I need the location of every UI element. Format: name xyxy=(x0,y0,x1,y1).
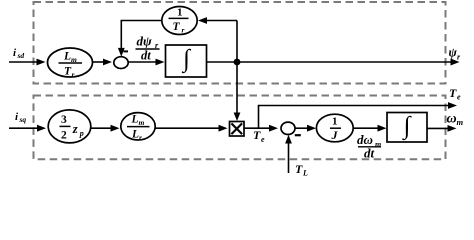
input label i_sd xyxy=(13,47,24,60)
gain block 1/J xyxy=(316,114,353,142)
wire: 1/Tr output down to S1 xyxy=(118,21,162,57)
gain block 3/2 zp xyxy=(48,110,91,143)
integrator block (speed) xyxy=(387,113,427,143)
summing junction S2 xyxy=(281,122,295,134)
output label Te xyxy=(449,86,461,102)
summing junction S1 xyxy=(114,57,128,69)
svg-text:L: L xyxy=(302,169,308,178)
svg-text:1: 1 xyxy=(332,116,338,128)
svg-text:L: L xyxy=(131,114,139,126)
svg-text:J: J xyxy=(331,128,339,142)
svg-text:dt: dt xyxy=(364,146,375,161)
wire: omega_m output xyxy=(427,125,457,132)
svg-text:e: e xyxy=(457,93,461,102)
wire: flux node down to multiplier xyxy=(234,62,241,121)
svg-text:m: m xyxy=(375,140,381,149)
svg-text:z: z xyxy=(72,122,78,136)
gain block Lm/Tr xyxy=(48,48,93,79)
output label psi_r xyxy=(449,46,462,62)
svg-text:2: 2 xyxy=(61,130,67,142)
svg-text:r: r xyxy=(182,25,185,34)
wire: i_sd input xyxy=(9,59,46,66)
svg-text:dt: dt xyxy=(141,49,151,63)
gain block Lm/Lr xyxy=(121,113,155,142)
input label i_sq xyxy=(15,111,26,124)
wire: 1/J to integrator 2 xyxy=(353,125,386,132)
svg-text:r: r xyxy=(139,133,142,142)
label TL xyxy=(295,162,308,178)
svg-text:m: m xyxy=(139,118,145,127)
svg-text:1: 1 xyxy=(177,7,183,19)
wire: 3/2zp to Lm/Lr xyxy=(91,125,120,132)
svg-text:sq: sq xyxy=(19,115,27,124)
svg-text:T: T xyxy=(295,162,303,176)
wire: multiplier to S2 xyxy=(244,125,278,132)
wire: S2 to 1/J xyxy=(295,125,316,132)
svg-text:L: L xyxy=(131,129,139,141)
svg-text:sd: sd xyxy=(17,51,25,60)
wire: Lm/Lr to multiplier xyxy=(155,125,227,132)
dashed box: rotor flux model (top) xyxy=(34,2,446,84)
label dpsi_r/dt xyxy=(136,34,160,63)
minus sign at S2 xyxy=(295,134,301,136)
wire: S1 to integrator 1 xyxy=(128,59,164,66)
svg-text:r: r xyxy=(72,70,75,79)
svg-text:3: 3 xyxy=(61,114,67,126)
svg-text:m: m xyxy=(457,117,464,127)
svg-text:L: L xyxy=(63,51,71,63)
svg-text:T: T xyxy=(449,86,457,100)
gain block 1/Tr xyxy=(162,7,197,35)
node: flux junction xyxy=(234,59,241,66)
wire: feedback horizontal into 1/Tr xyxy=(198,17,237,24)
svg-text:∫: ∫ xyxy=(402,113,412,141)
dashed box: torque/mechanical model (bottom) xyxy=(34,96,446,160)
minus sign at S1 xyxy=(124,50,129,52)
svg-text:dψ: dψ xyxy=(137,34,153,49)
integrator block (flux) xyxy=(166,45,207,77)
svg-text:T: T xyxy=(253,128,261,142)
svg-text:e: e xyxy=(261,135,265,144)
multiplier block xyxy=(230,122,245,137)
svg-text:ω: ω xyxy=(447,112,457,127)
wire: node up to feedback xyxy=(236,21,238,63)
wire: i_sq input xyxy=(9,125,46,132)
wire: Lm/Tr to summing junction S1 xyxy=(93,59,113,66)
svg-text:p: p xyxy=(79,129,84,138)
wire: Te tap to output xyxy=(259,102,458,128)
output label omega_m xyxy=(447,112,464,128)
wire: integrator output to psi_r exit xyxy=(207,59,460,66)
svg-text:T: T xyxy=(173,21,181,33)
label domega_m/dt xyxy=(357,132,381,161)
svg-text:∫: ∫ xyxy=(181,46,191,74)
label Te at multiplier output xyxy=(253,128,265,144)
wire: TL input xyxy=(285,135,292,173)
